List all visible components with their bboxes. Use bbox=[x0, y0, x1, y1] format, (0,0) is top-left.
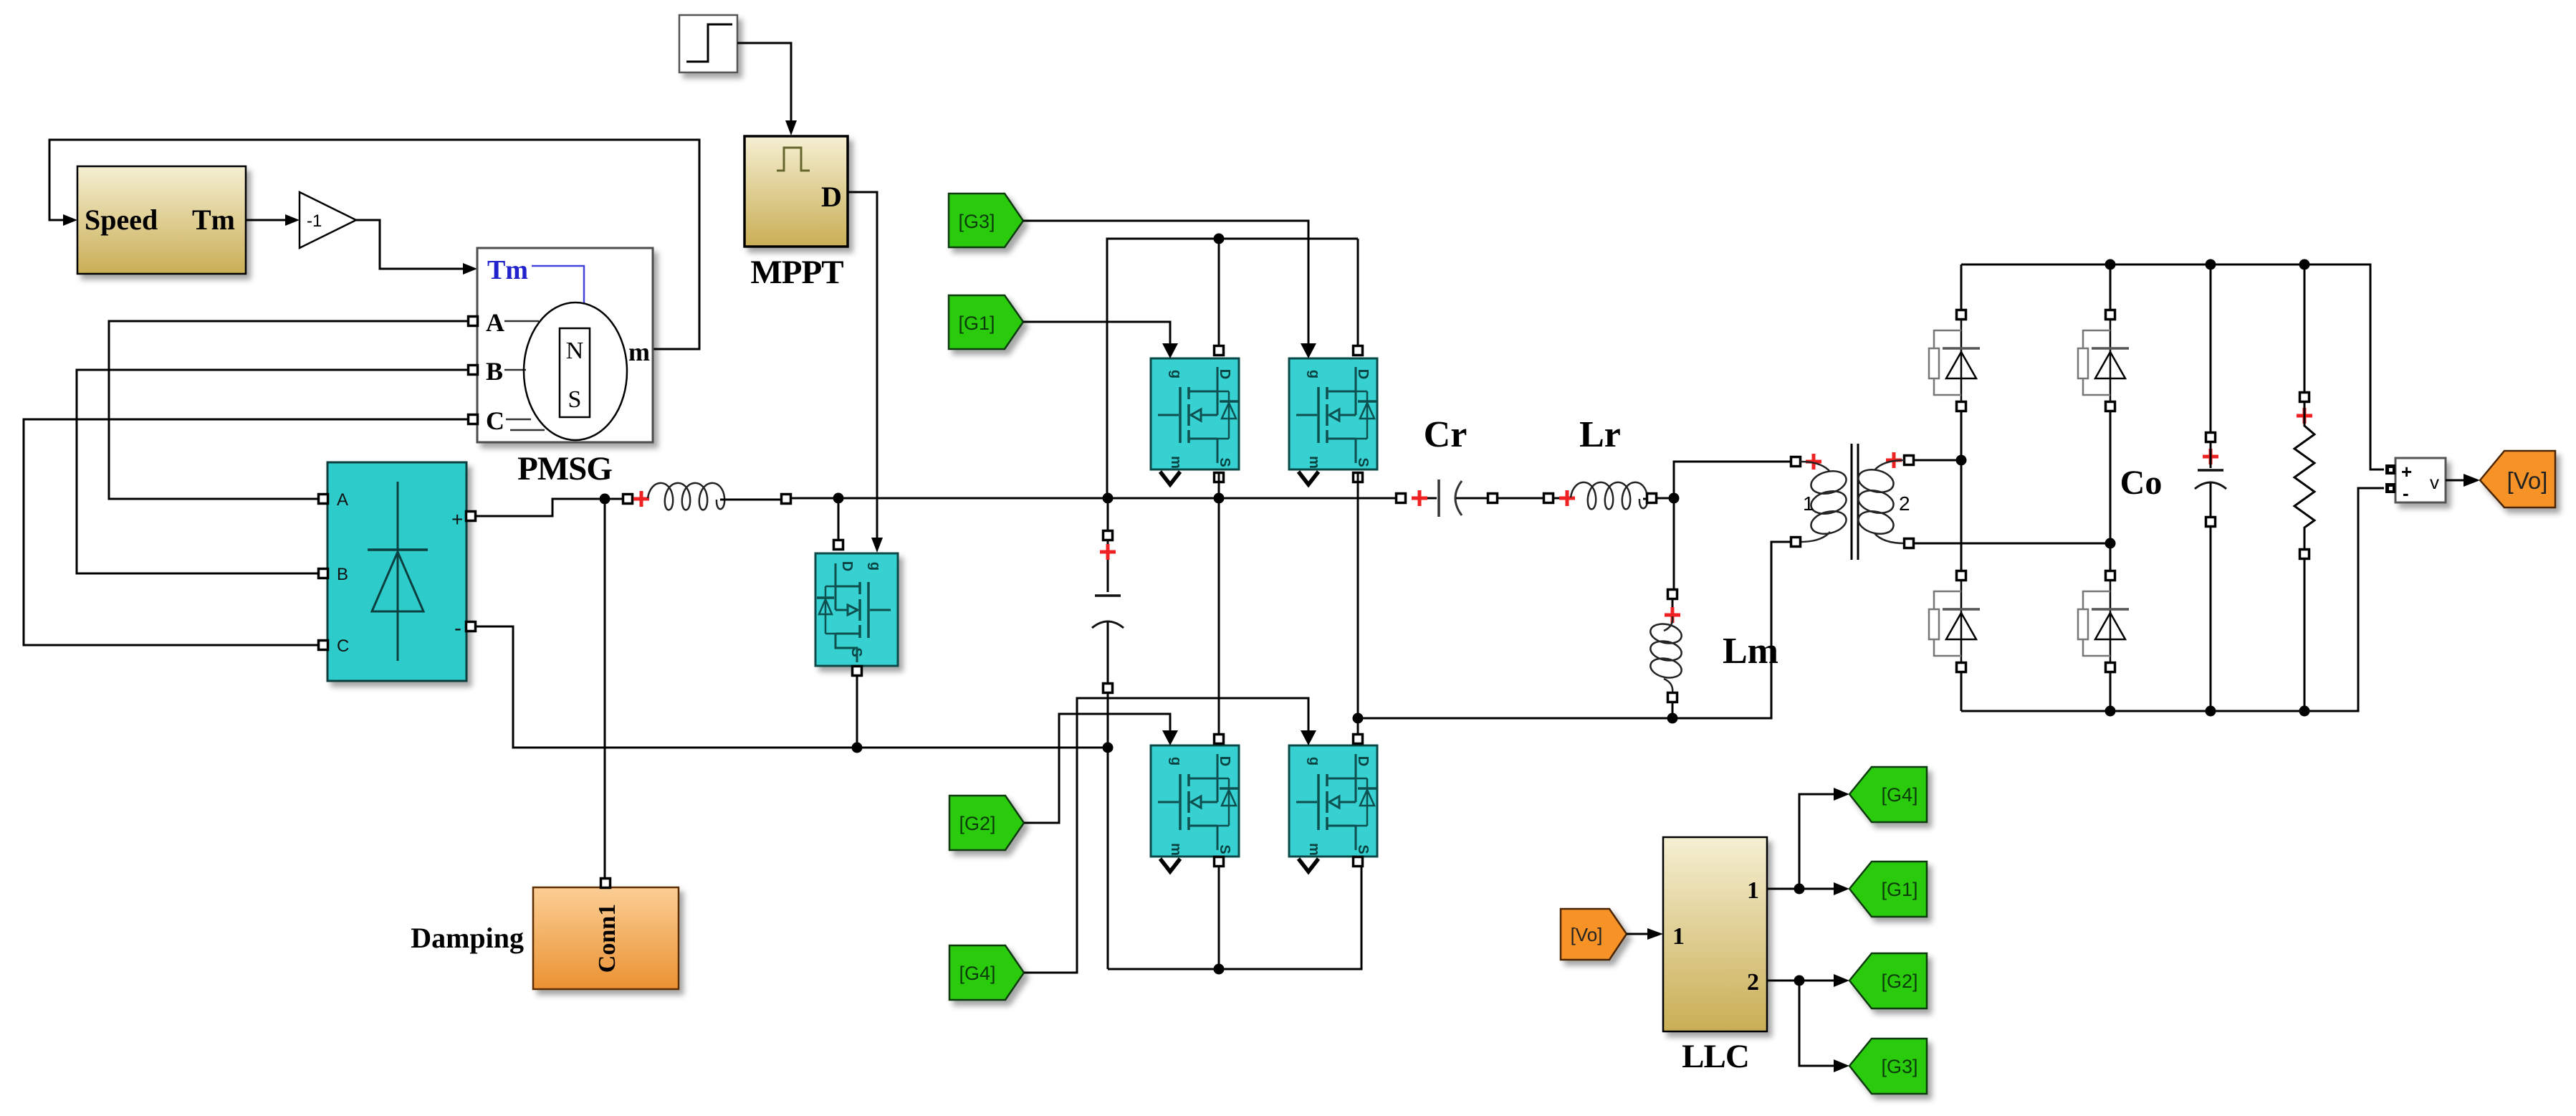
svg-text:Tm: Tm bbox=[487, 255, 528, 285]
svg-text:Cr: Cr bbox=[1424, 414, 1467, 455]
svg-text:2: 2 bbox=[1899, 492, 1910, 515]
port squares PMSG A B C bbox=[469, 317, 478, 424]
load resistor bbox=[2294, 264, 2314, 711]
svg-text:Damping: Damping bbox=[411, 922, 524, 954]
wire: Q1 source node down to Q2 drain bbox=[1218, 498, 1220, 735]
svg-text:v: v bbox=[2430, 472, 2439, 493]
svg-text:B: B bbox=[486, 357, 503, 386]
wire: PMSG B to rectifier B bbox=[77, 370, 477, 573]
block Conn1 damping subsystem bbox=[533, 879, 679, 990]
capacitor Cr bbox=[1397, 480, 1498, 517]
diode D3 (left bottom) bbox=[1929, 571, 1980, 672]
svg-text:[G4]: [G4] bbox=[959, 963, 995, 984]
wire: node up to transformer primary top bbox=[1674, 462, 1791, 498]
wire: Speed to gain bbox=[246, 214, 300, 226]
wire: gain to PMSG Tm input bbox=[356, 220, 477, 275]
label Lm bbox=[1723, 631, 1778, 672]
svg-text:PMSG: PMSG bbox=[517, 450, 612, 487]
svg-text:D: D bbox=[821, 181, 842, 213]
svg-text:[G2]: [G2] bbox=[1881, 970, 1917, 992]
wire: [G3] to top-right MOSFET gate bbox=[1023, 221, 1308, 345]
From tag [G2] bbox=[949, 796, 1024, 850]
svg-text:B: B bbox=[337, 565, 348, 584]
wire: PMSG A to rectifier A bbox=[109, 321, 477, 499]
wire: boost MOSFET drain stub to DC bus bbox=[834, 498, 843, 550]
svg-text:1: 1 bbox=[1747, 877, 1759, 904]
label PMSG bbox=[517, 450, 612, 487]
label Cr bbox=[1424, 414, 1467, 455]
label Co bbox=[2120, 464, 2163, 502]
Goto tag [Vo] bbox=[2480, 451, 2555, 507]
wire: Lr to node bbox=[1656, 493, 1680, 504]
svg-text:1: 1 bbox=[1672, 923, 1685, 950]
svg-text:[G3]: [G3] bbox=[958, 211, 995, 232]
svg-text:Conn1: Conn1 bbox=[594, 904, 621, 973]
wire: MPPT D output to boost MOSFET gate bbox=[848, 192, 883, 553]
wire: junction down to Conn1 (Damping) bbox=[600, 494, 611, 879]
block LLC controller bbox=[1663, 837, 1767, 1031]
label Damping bbox=[411, 922, 524, 954]
svg-text:S: S bbox=[568, 386, 582, 413]
wire: [G4] to bottom-right MOSFET gate bbox=[1024, 698, 1308, 973]
wire: PMSG m output feedback to Speed block input bbox=[49, 140, 699, 349]
svg-text:+: + bbox=[451, 508, 463, 530]
port squares top MOSFETs bbox=[1215, 346, 1363, 482]
svg-text:Co: Co bbox=[2120, 464, 2163, 502]
svg-text:-: - bbox=[454, 616, 461, 640]
From tag [G3] bbox=[949, 194, 1023, 247]
transformer primary winding bbox=[1791, 454, 1849, 547]
svg-text:[G1]: [G1] bbox=[1881, 879, 1917, 900]
inductor Lr bbox=[1544, 482, 1657, 510]
svg-text:D: D bbox=[839, 561, 855, 571]
bridge left leg wires bbox=[1960, 264, 1963, 711]
svg-text:[Vo]: [Vo] bbox=[2507, 467, 2548, 494]
wire: secondary bottom to bridge right leg bbox=[1913, 538, 2116, 549]
svg-text:-1: -1 bbox=[307, 211, 322, 231]
port squares bottom MOSFETs bbox=[1215, 735, 1363, 867]
svg-text:Tm: Tm bbox=[192, 204, 235, 236]
block Speed (wind turbine subsystem) bbox=[77, 166, 246, 274]
svg-text:[G1]: [G1] bbox=[958, 313, 995, 334]
From tag [G4] bbox=[949, 945, 1024, 1000]
label MPPT bbox=[750, 254, 843, 291]
DC link rail to H-bridge drains bbox=[1107, 234, 1358, 499]
wire: bottom source bus bbox=[1108, 866, 1361, 975]
svg-text:1: 1 bbox=[1803, 492, 1814, 515]
svg-text:C: C bbox=[486, 406, 504, 435]
wire: Cr to Lr bbox=[1497, 497, 1544, 500]
port squares rectifier bbox=[319, 495, 476, 650]
bridge bottom rail bbox=[1961, 488, 2384, 717]
wire: PMSG C to rectifier C bbox=[24, 419, 477, 645]
Goto tag [G2] bbox=[1849, 953, 1927, 1008]
wire: LLC output 2 to [G2] and [G3] bbox=[1767, 974, 1849, 1072]
wire: step to MPPT bbox=[737, 43, 797, 135]
wire: DC plus bus from inductor to Cr bbox=[790, 493, 1397, 504]
transformer secondary winding bbox=[1856, 452, 1913, 548]
svg-text:+: + bbox=[2401, 461, 2412, 482]
bridge top rail bbox=[1961, 259, 2384, 470]
diode D1 (left top) bbox=[1929, 310, 1980, 411]
label Lr bbox=[1579, 414, 1621, 455]
inductor Lm bbox=[1649, 590, 1683, 702]
voltage measurement block bbox=[2385, 458, 2446, 504]
DC link capacitor bbox=[1092, 502, 1124, 969]
boost inductor (input filter) bbox=[623, 483, 791, 510]
bridge right leg wires bbox=[2110, 264, 2112, 711]
wire: [G2] to bottom-left MOSFET gate bbox=[1024, 714, 1170, 823]
wire: Q3 source down to Q4 drain (node B) bbox=[1353, 474, 1364, 735]
diode D2 (right top) bbox=[2078, 310, 2129, 411]
wire: Lm bottom to node B bus bbox=[1667, 702, 1678, 724]
svg-text:[G2]: [G2] bbox=[959, 813, 995, 834]
label LLC bbox=[1682, 1038, 1749, 1075]
svg-text:2: 2 bbox=[1747, 969, 1759, 996]
svg-text:A: A bbox=[337, 490, 348, 510]
Goto tag [G1] bbox=[1849, 862, 1927, 917]
capacitor Co bbox=[2195, 264, 2226, 711]
svg-text:Lm: Lm bbox=[1723, 631, 1778, 672]
svg-text:LLC: LLC bbox=[1682, 1038, 1749, 1075]
svg-text:C: C bbox=[337, 636, 349, 656]
boost MOSFET (rotated) bbox=[815, 553, 898, 666]
transformer core bbox=[1852, 444, 1858, 560]
wire: rectifier - to DC minus bus bbox=[475, 626, 1103, 748]
step block (source) bbox=[679, 15, 737, 72]
Goto tag [G4] bbox=[1849, 767, 1927, 822]
svg-text:N: N bbox=[566, 338, 584, 364]
block rectifier (3-phase diode bridge) bbox=[327, 462, 466, 681]
wire: node B bus (Q4 drain to transformer primary bottom) bbox=[1358, 542, 1791, 718]
MOSFET Q1 top-left bbox=[1151, 343, 1239, 485]
wire: Q1 source to bus bbox=[1218, 474, 1220, 498]
wire: rectifier + to DC bus bbox=[475, 499, 623, 516]
MOSFET Q3 top-right bbox=[1289, 343, 1377, 485]
svg-text:[G4]: [G4] bbox=[1881, 784, 1917, 806]
svg-text:[G3]: [G3] bbox=[1881, 1056, 1917, 1077]
MOSFET Q2 bottom-left bbox=[1151, 730, 1239, 872]
label 2 secondary bbox=[1899, 492, 1910, 515]
wire: [G1] to top-left MOSFET gate bbox=[1023, 322, 1170, 345]
svg-text:g: g bbox=[867, 562, 883, 571]
svg-text:A: A bbox=[486, 308, 504, 337]
wire: secondary top to bridge left leg bbox=[1913, 455, 1967, 466]
svg-text:Speed: Speed bbox=[85, 204, 158, 236]
gain block -1 bbox=[300, 192, 356, 248]
block MPPT bbox=[744, 136, 848, 247]
Goto tag [G3] bbox=[1849, 1039, 1927, 1094]
block PMSG machine bbox=[477, 248, 653, 442]
From tag [G1] bbox=[949, 295, 1023, 349]
wire: boost MOSFET source to DC minus bus bbox=[852, 666, 1114, 753]
svg-text:[Vo]: [Vo] bbox=[1571, 924, 1603, 945]
MOSFET Q4 bottom-right bbox=[1289, 730, 1377, 872]
wire: [Vo] to LLC input bbox=[1627, 928, 1663, 940]
From tag [Vo] (LLC input) bbox=[1561, 909, 1627, 960]
wire: LLC output 1 to [G4] and [G1] bbox=[1767, 788, 1849, 895]
diode D4 (right bottom) bbox=[2078, 571, 2129, 672]
wire: node down to Lm bbox=[1673, 498, 1675, 591]
svg-text:MPPT: MPPT bbox=[750, 254, 843, 291]
svg-text:m: m bbox=[628, 338, 650, 366]
svg-text:-: - bbox=[2403, 482, 2409, 504]
wire: voltmeter output to [Vo] goto bbox=[2446, 474, 2480, 487]
svg-text:Lr: Lr bbox=[1579, 414, 1621, 455]
